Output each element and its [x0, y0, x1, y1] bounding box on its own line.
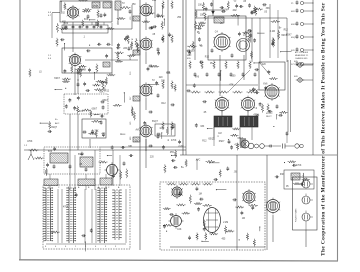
svg-text:47K: 47K [234, 144, 239, 146]
svg-text:33K: 33K [128, 146, 133, 148]
svg-text:6SK7: 6SK7 [92, 109, 98, 111]
svg-text:47K: 47K [229, 85, 234, 87]
svg-text:RECT: RECT [266, 116, 272, 118]
svg-text:POWER TRANS: POWER TRANS [295, 208, 298, 222]
svg-text:10K: 10K [200, 14, 205, 16]
svg-text:33K: 33K [200, 126, 205, 128]
svg-text:6V6: 6V6 [195, 77, 200, 79]
svg-text:10K: 10K [177, 229, 182, 231]
svg-text:1M: 1M [242, 218, 245, 220]
svg-text:33K: 33K [166, 73, 171, 75]
svg-text:6SK7: 6SK7 [286, 35, 292, 37]
svg-text:R12: R12 [284, 29, 289, 31]
svg-text:33K: 33K [161, 81, 166, 83]
svg-text:2.2M: 2.2M [223, 222, 228, 224]
svg-text:6V6: 6V6 [84, 19, 89, 21]
svg-text:R12: R12 [152, 0, 157, 2]
svg-text:AVC: AVC [136, 129, 141, 132]
svg-text:6SQ7: 6SQ7 [51, 127, 58, 129]
svg-text:470K: 470K [81, 69, 87, 71]
svg-text:AVC: AVC [196, 158, 201, 161]
svg-text:The Cooperation of the Manufac: The Cooperation of the Manufacturer of T… [321, 2, 327, 256]
svg-text:470K: 470K [296, 165, 302, 167]
svg-text:R12: R12 [161, 103, 166, 105]
svg-text:33K: 33K [266, 8, 271, 10]
svg-text:470K: 470K [253, 115, 259, 117]
svg-text:6V6: 6V6 [263, 84, 268, 86]
svg-text:2.2M: 2.2M [178, 146, 183, 148]
svg-text:6SK7: 6SK7 [219, 141, 225, 143]
svg-text:470K: 470K [171, 140, 177, 142]
svg-text:ALL VOLTAGES: ALL VOLTAGES [295, 51, 309, 54]
svg-text:R12: R12 [202, 140, 207, 142]
svg-text:6V6: 6V6 [79, 111, 84, 113]
svg-text:10K: 10K [159, 128, 164, 130]
svg-text:470K: 470K [27, 141, 33, 143]
svg-text:CHASSIS GND: CHASSIS GND [295, 57, 308, 60]
svg-text:1M: 1M [199, 194, 202, 196]
svg-text:6SK7: 6SK7 [99, 92, 105, 94]
svg-text:1M: 1M [218, 133, 221, 135]
svg-text:6SK7 IF: 6SK7 IF [132, 37, 134, 46]
svg-text:6V6: 6V6 [48, 151, 53, 153]
svg-text:.002: .002 [60, 13, 65, 15]
svg-text:R12: R12 [205, 57, 210, 59]
svg-text:470K: 470K [93, 6, 99, 8]
svg-text:470K: 470K [63, 206, 69, 208]
svg-text:2.2M: 2.2M [270, 31, 275, 33]
svg-text:AVC: AVC [55, 122, 60, 125]
svg-text:6SQ7: 6SQ7 [208, 138, 215, 140]
svg-text:MEASURED TO: MEASURED TO [295, 54, 309, 57]
svg-text:6SK7: 6SK7 [54, 78, 60, 80]
svg-text:6SQ7: 6SQ7 [152, 121, 159, 123]
svg-text:6X5GT: 6X5GT [266, 113, 273, 115]
svg-text:.002: .002 [232, 10, 237, 12]
svg-text:R12: R12 [105, 91, 110, 93]
